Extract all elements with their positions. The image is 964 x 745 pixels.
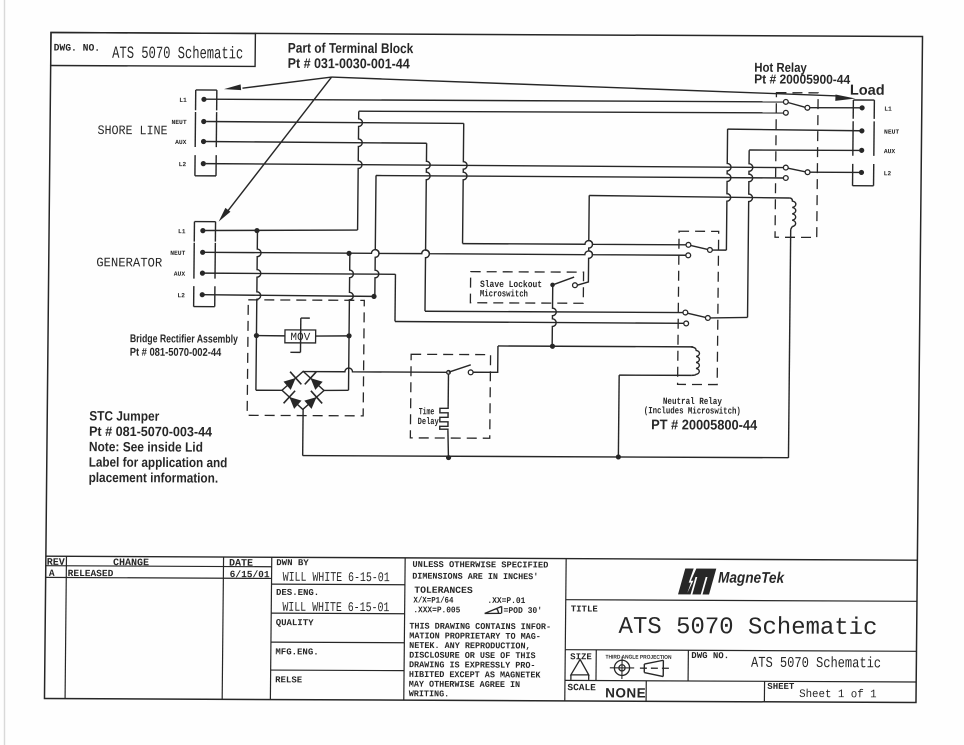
svg-text:TOLERANCES: TOLERANCES: [414, 585, 473, 596]
svg-text:NEUT: NEUT: [171, 119, 186, 126]
svg-text:UNLESS OTHERWISE SPECIFIED: UNLESS OTHERWISE SPECIFIED: [412, 560, 548, 571]
svg-text:AUX: AUX: [175, 139, 187, 146]
svg-text:WILL WHITE 6-15-01: WILL WHITE 6-15-01: [283, 570, 390, 585]
svg-text:.XXX=P.005: .XXX=P.005: [413, 605, 460, 615]
svg-text:AUX: AUX: [174, 271, 186, 278]
time delay switch blade (open): [449, 365, 471, 373]
wire GENERATOR L2: [204, 295, 371, 297]
wire GENERATOR L1: [205, 229, 358, 231]
junction gen L1 / bridge tap: [254, 228, 259, 233]
wire hot relay coil down to bottom rail: [788, 229, 790, 457]
wire slave lockout riser: [588, 195, 593, 278]
neutral relay common contact: [707, 248, 712, 253]
svg-text:SHEET: SHEET: [767, 682, 795, 692]
svg-text:Pt # 081-5070-002-44: Pt # 081-5070-002-44: [130, 347, 222, 359]
svg-text:X/X=P1/64: X/X=P1/64: [413, 595, 453, 605]
arrowhead at GENERATOR terminal block: [219, 208, 231, 222]
angle tolerance symbol: [485, 606, 502, 613]
wire gen L1 to hot relay NC contact: [359, 111, 784, 113]
MagneTek logo emblem: [678, 568, 716, 594]
title block frame: [46, 556, 918, 560]
svg-text:L2: L2: [179, 161, 187, 168]
wire neutral coil bottom: [619, 374, 691, 376]
leader line to Load: [331, 77, 837, 96]
wire shore NEUT to neutral relay switch: [463, 240, 687, 245]
wire GENERATOR AUX: [205, 273, 396, 274]
svg-text:Bridge Rectifier Assembly: Bridge Rectifier Assembly: [130, 333, 239, 345]
slave lockout NO contact: [573, 283, 578, 288]
svg-text:AUX: AUX: [884, 148, 896, 155]
wire to Load AUX: [749, 149, 859, 152]
wire time delay / slave lockout to neutral relay coil: [498, 345, 693, 348]
hot relay L1 switch blade: [788, 102, 805, 107]
microswitch common contact: [705, 316, 710, 321]
svg-text:ATS 5070 Schematic: ATS 5070 Schematic: [112, 43, 243, 64]
wire bridge + output to time delay: [303, 368, 446, 373]
svg-text:DWG. NO.: DWG. NO.: [54, 44, 101, 55]
neutral relay K2 dashed enclosure: [678, 231, 719, 384]
hot relay L1 NO contact (shore side): [783, 99, 788, 104]
wire shore AUX to neutral microswitch: [425, 311, 683, 312]
svg-text:.XX=P.01: .XX=P.01: [487, 596, 525, 606]
junction time delay / bottom rail: [446, 455, 451, 460]
svg-text:TITLE: TITLE: [571, 604, 599, 614]
leader line to SHORE terminal block: [242, 77, 331, 89]
svg-text:QUALITY: QUALITY: [276, 618, 315, 628]
hot relay L1 NC contact (generator side): [783, 110, 788, 115]
svg-text:MFG.ENG.: MFG.ENG.: [275, 647, 318, 657]
slave lockout switch blade (open): [553, 277, 575, 285]
svg-text:PT # 20005800-44: PT # 20005800-44: [651, 416, 757, 432]
junction gen NEUT / bridge tap: [346, 251, 351, 256]
wire gen L2 riser: [375, 175, 380, 296]
wire SHORE NEUT: [206, 122, 464, 124]
size A symbol: [571, 659, 589, 679]
svg-text:Load: Load: [850, 83, 885, 99]
wire SHORE L2 to hot relay NO: [206, 164, 784, 168]
svg-text:Pt # 20005900-44: Pt # 20005900-44: [754, 71, 851, 86]
arrowhead at Load: [835, 95, 855, 101]
hot relay L2 common contact: [805, 170, 810, 175]
svg-text:DES.ENG.: DES.ENG.: [276, 588, 319, 598]
terminal block GENERATOR (Pt 031-0030-001-44): [193, 222, 195, 242]
junction neutral coil / bottom rail: [616, 454, 621, 459]
svg-text:placement information.: placement information.: [89, 470, 219, 486]
svg-text:Sheet 1 of 1: Sheet 1 of 1: [799, 688, 877, 701]
svg-text:Label for application and: Label for application and: [89, 455, 228, 471]
diode D4 (bottom-right, B to R): [304, 397, 316, 409]
leader line to GENERATOR terminal block: [227, 77, 332, 213]
svg-text:L2: L2: [884, 170, 892, 177]
microswitch gen-AUX contact: [684, 321, 689, 326]
title block right portion: [566, 600, 917, 602]
wire SHORE AUX: [206, 142, 427, 144]
neutral relay coil: [691, 347, 700, 376]
wire gen L1 tap down to bridge AC1: [256, 231, 261, 391]
wire microswitch riser to Load AUX: [748, 150, 753, 317]
wire bridge - output down to bottom rail: [302, 409, 304, 455]
svg-text:MagneTek: MagneTek: [718, 570, 785, 587]
neutral relay gen-NEUT contact: [686, 253, 691, 258]
arrowhead at SHORE terminal block: [224, 84, 241, 90]
svg-text:WRITING.: WRITING.: [409, 689, 450, 699]
svg-text:A: A: [49, 568, 55, 579]
slave lockout common contact: [550, 283, 555, 288]
svg-text:RELSE: RELSE: [275, 675, 303, 685]
microswitch blade: [687, 313, 705, 317]
svg-text:Part of Terminal Block: Part of Terminal Block: [288, 40, 414, 57]
wire GENERATOR NEUT to neutral relay switch: [205, 249, 686, 255]
wire neutral relay common riser: [726, 129, 731, 250]
slave lockout dashed enclosure: [470, 272, 583, 304]
svg-text:ATS 5070 Schematic: ATS 5070 Schematic: [751, 656, 881, 673]
svg-text:(Includes Microswitch): (Includes Microswitch): [644, 405, 741, 416]
microswitch shore-AUX contact: [683, 310, 688, 315]
diode D3 (bottom-left, B to L): [289, 397, 301, 409]
junction slave lockout / coil feed wire: [550, 344, 555, 349]
svg-text:L2: L2: [177, 292, 185, 299]
wire neutral coil drop to bottom rail: [617, 375, 620, 457]
wire neutral relay common: [712, 249, 726, 251]
svg-text:RELEASED: RELEASED: [68, 568, 114, 579]
wire MOV left: [256, 335, 285, 337]
hot relay L2 NO contact (shore side): [783, 165, 788, 170]
svg-text:L1: L1: [179, 97, 187, 104]
svg-text:Pt # 081-5070-003-44: Pt # 081-5070-003-44: [89, 424, 213, 440]
junction MOV left: [254, 333, 259, 338]
hot relay L1 common contact: [805, 105, 810, 110]
svg-text:Microswitch: Microswitch: [480, 288, 528, 299]
third angle projection symbol (target): [614, 660, 629, 675]
svg-text:DWN BY: DWN BY: [276, 558, 309, 568]
svg-text:L1: L1: [884, 106, 892, 113]
wire gen L2 to hot relay NC contact: [376, 176, 784, 178]
svg-text:Note: See inside Lid: Note: See inside Lid: [89, 439, 203, 455]
time delay dashed enclosure: [410, 354, 490, 438]
svg-text:NEUT: NEUT: [170, 250, 185, 257]
wire shore AUX drop: [425, 143, 430, 311]
wire slave lockout to hot relay coil: [589, 195, 789, 198]
time delay common contact: [447, 371, 451, 375]
bottom rail wire: [303, 455, 789, 457]
diode D2 (top-right, R to T): [310, 378, 322, 390]
time delay heater element: [447, 374, 449, 407]
terminal block Load: [852, 100, 854, 119]
tolerances / proprietary note column: [565, 559, 566, 701]
wire gen NEUT tap down to bridge AC2: [349, 253, 354, 390]
wire slave lockout common drop: [552, 285, 556, 346]
junction gen L2 / riser: [371, 294, 376, 299]
bridge rectifier diode ring D1-D4: [282, 371, 324, 409]
wire time delay NO to coil feed: [473, 346, 498, 373]
svg-text:6/15/01: 6/15/01: [230, 569, 270, 580]
wire to bridge left vertex: [256, 389, 282, 391]
svg-text:STC Jumper: STC Jumper: [89, 408, 160, 423]
svg-text:L1: L1: [178, 228, 186, 235]
approvals column: [404, 558, 405, 700]
wire gen AUX to neutral microswitch NC: [395, 321, 684, 323]
wire to bridge right vertex: [324, 389, 349, 391]
neutral relay switch blade: [691, 245, 708, 249]
MOV varistor: [285, 330, 316, 343]
neutral relay shore-NEUT contact: [686, 242, 691, 247]
svg-text:NONE: NONE: [605, 685, 646, 700]
wire gen L1 riser: [358, 111, 363, 230]
DWG NO title box (top-left): [51, 33, 256, 67]
wire MOV right: [316, 335, 349, 337]
svg-text:Pt # 031-0030-001-44: Pt # 031-0030-001-44: [288, 55, 410, 72]
svg-text:DWG NO.: DWG NO.: [691, 651, 729, 661]
wire hot relay L1 to Load L1: [810, 107, 860, 109]
diode D1 (top-left, L to T): [283, 378, 295, 390]
bridge rectifier assembly dashed enclosure: [247, 300, 364, 416]
svg-text:SHORE LINE: SHORE LINE: [97, 123, 167, 138]
terminal block SHORE LINE (Pt 031-0030-001-44): [195, 90, 197, 110]
hot relay L2 NC contact (generator side): [783, 176, 788, 181]
wire shore NEUT drop: [463, 123, 468, 243]
time delay NO contact: [468, 370, 473, 375]
MOV strike line: [299, 318, 301, 352]
svg-text:=POD 30': =POD 30': [504, 606, 543, 616]
wire microswitch common: [710, 316, 747, 319]
svg-text:CHANGE: CHANGE: [113, 558, 149, 569]
scanner edge artifact: [4, 0, 6, 745]
wire gen AUX drop: [394, 274, 396, 321]
svg-text:GENERATOR: GENERATOR: [96, 255, 162, 270]
hot relay K1 dashed enclosure: [775, 93, 818, 238]
junction MOV right: [346, 333, 351, 338]
hot relay L2 switch blade: [788, 168, 806, 172]
svg-text:Delay: Delay: [418, 416, 439, 427]
wire to Load NEUT: [728, 129, 860, 131]
wire hot relay L2 to Load L2: [810, 171, 859, 173]
svg-text:WILL WHITE 6-15-01: WILL WHITE 6-15-01: [282, 600, 389, 615]
svg-text:NEUT: NEUT: [884, 129, 899, 136]
svg-text:ATS 5070 Schematic: ATS 5070 Schematic: [618, 614, 877, 642]
svg-text:SCALE: SCALE: [567, 682, 596, 693]
revision table: [65, 556, 66, 698]
svg-text:DIMENSIONS ARE IN INCHES': DIMENSIONS ARE IN INCHES': [412, 572, 538, 583]
wire SHORE L1 to hot relay NO: [206, 99, 783, 102]
hot relay coil: [789, 198, 796, 227]
wire slave lockout NO to riser: [577, 278, 588, 285]
third angle projection symbol (cone): [644, 660, 663, 676]
